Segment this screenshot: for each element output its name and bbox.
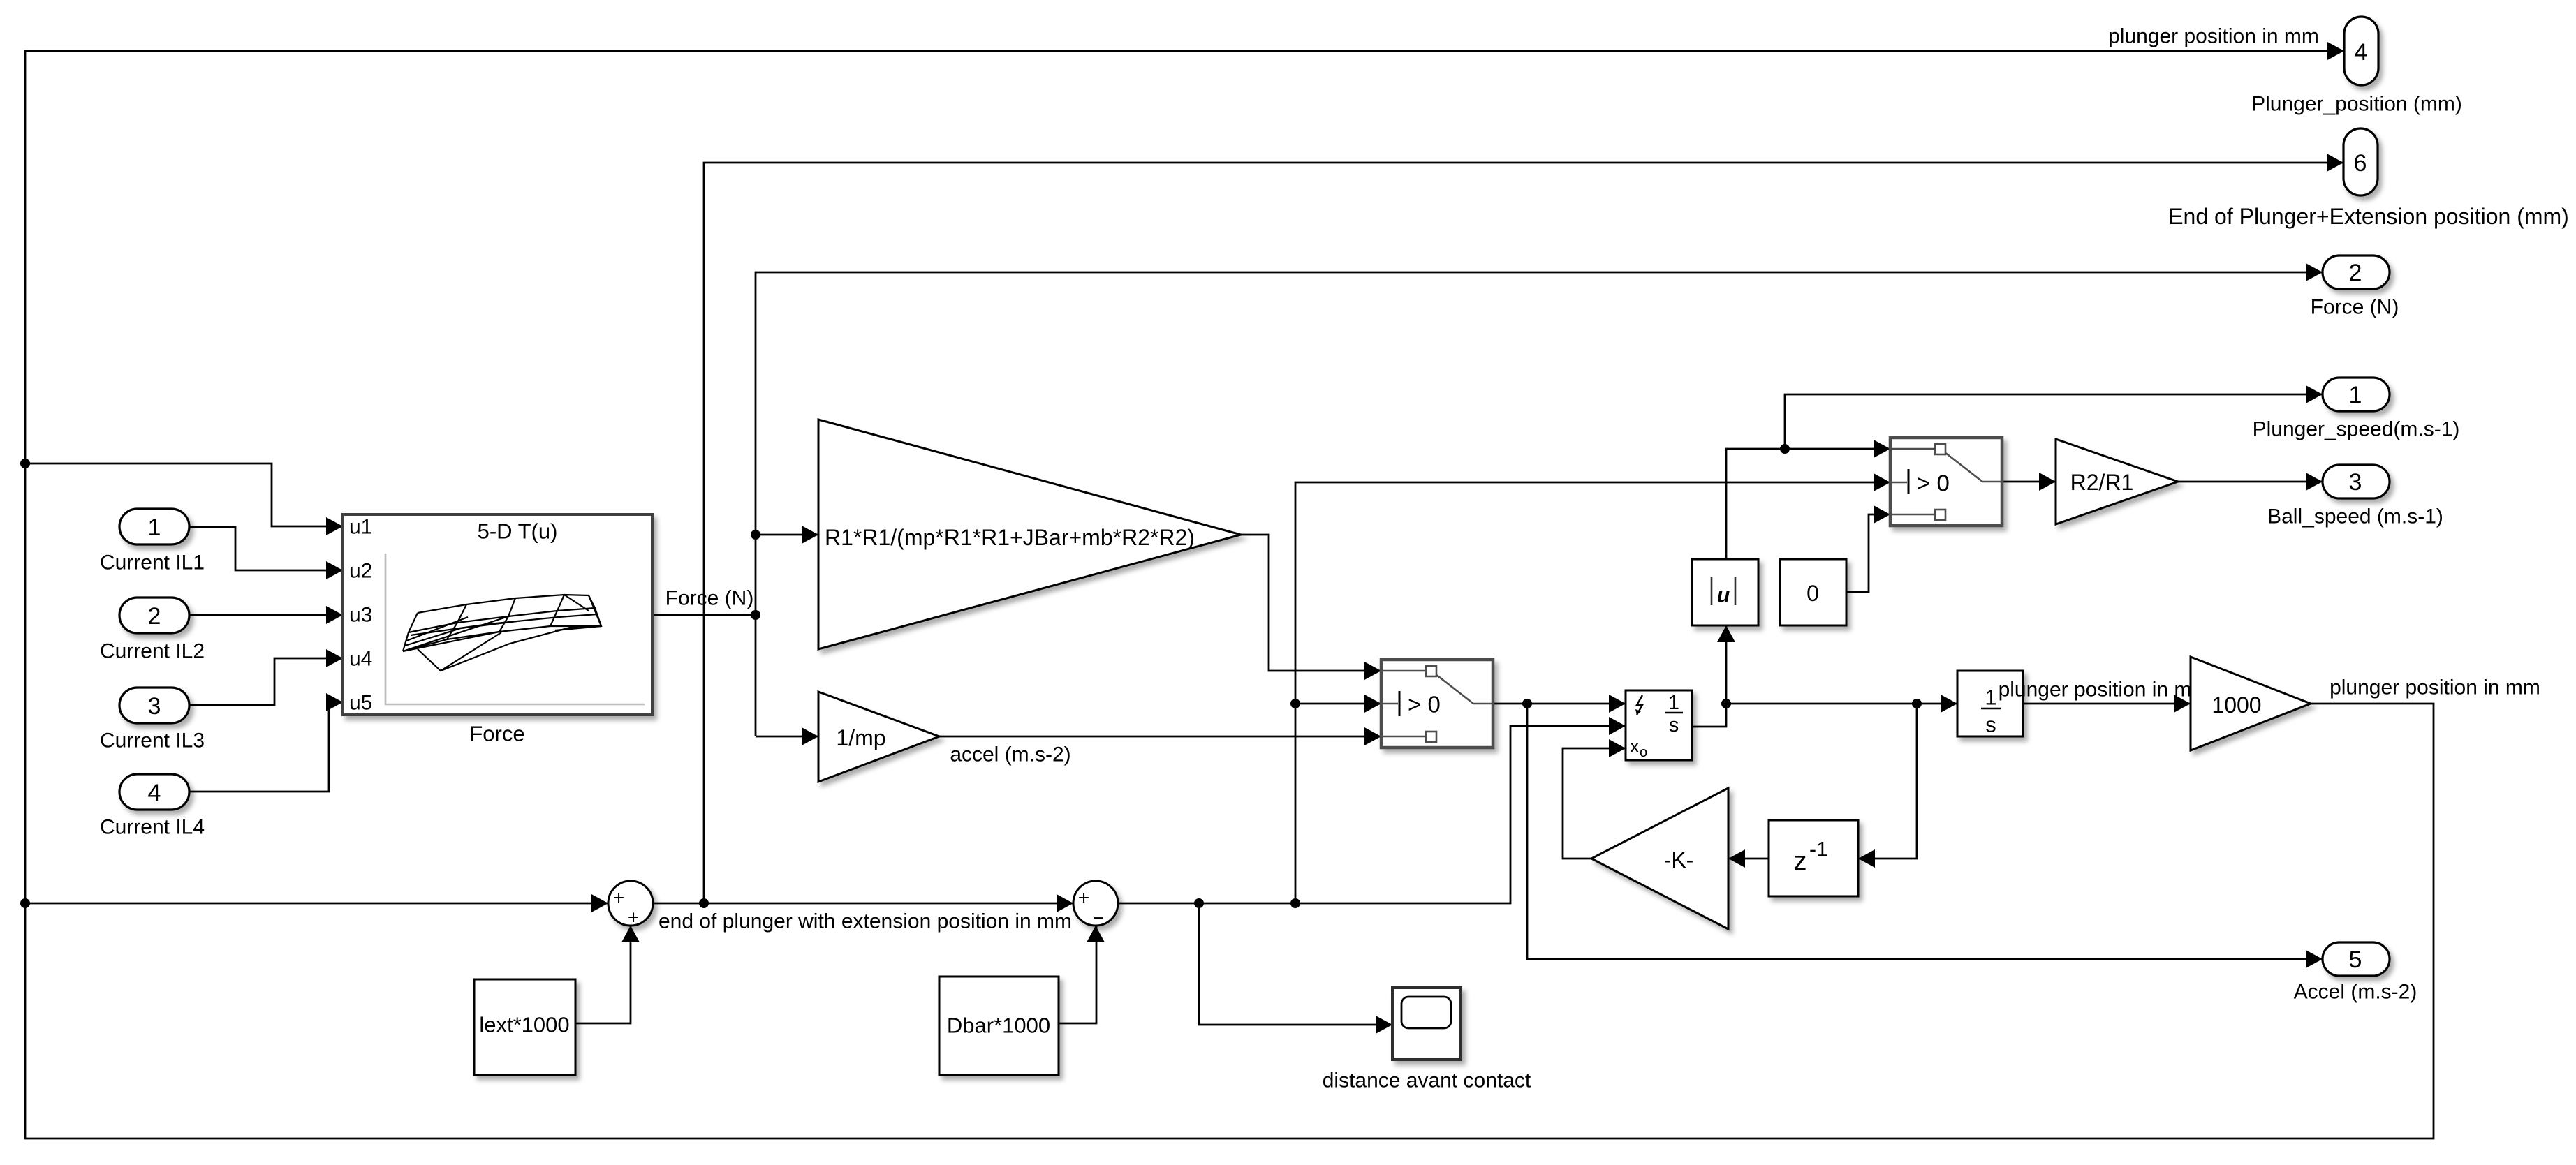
inport 4 Current IL4 bbox=[119, 774, 189, 810]
arrow into switch1 in3 bbox=[1364, 727, 1381, 745]
wire constant 0 to switch2 in3 bbox=[1846, 514, 1890, 592]
svg-text:3: 3 bbox=[2349, 469, 2362, 496]
wire lext*1000 to sum1 bottom bbox=[575, 926, 631, 1023]
label abs u bbox=[1712, 577, 1735, 607]
svg-text:plunger position in mm: plunger position in mm bbox=[2108, 25, 2319, 48]
label sum2 minus bottom bbox=[1093, 907, 1104, 929]
label u4 bbox=[349, 648, 372, 671]
svg-text:distance avant contact: distance avant contact bbox=[1323, 1069, 1531, 1092]
svg-text:u4: u4 bbox=[349, 648, 372, 671]
label inport3 number bbox=[148, 693, 161, 720]
wire -K- output to integrator x0 input bbox=[1563, 748, 1626, 859]
svg-text:+: + bbox=[1078, 887, 1089, 909]
arrow into integrator in1 bbox=[1609, 695, 1626, 713]
integrator 1/s bbox=[1957, 671, 2023, 736]
label inport1 number bbox=[148, 514, 161, 541]
label lext*1000 bbox=[479, 1013, 569, 1037]
wire node to 1/s integrator bbox=[1726, 703, 1957, 705]
svg-text:end of plunger with extension: end of plunger with extension position i… bbox=[658, 910, 1072, 933]
svg-text:0: 0 bbox=[1806, 581, 1819, 606]
svg-text:x: x bbox=[1630, 736, 1640, 757]
svg-text:o: o bbox=[1640, 745, 1647, 760]
gain 1/mp bbox=[818, 692, 939, 782]
outport 5 Accel bbox=[2323, 942, 2390, 976]
svg-text:s: s bbox=[1985, 713, 1996, 737]
arrow into sum1 bottom bbox=[621, 926, 640, 942]
outport 4 Plunger_position (vertical capsule) bbox=[2344, 17, 2378, 85]
arrow into Z-1 bbox=[1858, 849, 1875, 868]
label inport2 number bbox=[148, 603, 161, 630]
svg-text:End of Plunger+Extension posit: End of Plunger+Extension position (mm) bbox=[2168, 204, 2569, 229]
svg-text:lext*1000: lext*1000 bbox=[479, 1013, 569, 1037]
svg-text:Current IL1: Current IL1 bbox=[100, 551, 205, 574]
svg-text:5-D T(u): 5-D T(u) bbox=[478, 519, 558, 544]
wire switch1 output to reset integrator in1 bbox=[1493, 703, 1626, 705]
svg-text:2: 2 bbox=[2349, 260, 2362, 286]
arrow into Outport 1 bbox=[2306, 385, 2323, 403]
unit delay Z-1 bbox=[1769, 820, 1858, 896]
label u3 bbox=[349, 604, 372, 627]
inport 1 Current IL1 bbox=[119, 509, 189, 544]
arrow into switch1 in2 bbox=[1364, 695, 1381, 713]
label switch2 criteria bbox=[1917, 470, 1950, 496]
svg-text:1/mp: 1/mp bbox=[836, 725, 885, 750]
svg-text:6: 6 bbox=[2354, 150, 2367, 177]
junction node integrator output bbox=[1721, 699, 1731, 708]
svg-text:Current IL3: Current IL3 bbox=[100, 729, 205, 752]
svg-text:1000: 1000 bbox=[2211, 692, 2261, 718]
label sum1 plus left bbox=[613, 887, 624, 909]
svg-text:plunger position in mm: plunger position in mm bbox=[2330, 676, 2540, 699]
label outport6 number bbox=[2354, 150, 2367, 177]
lookup table 5-D T(u) Force bbox=[343, 514, 652, 715]
arrow into Outport 6 bbox=[2327, 154, 2343, 172]
arrow into Outport 5 bbox=[2306, 950, 2323, 968]
svg-text:Force (N): Force (N) bbox=[2311, 296, 2399, 319]
wire u1 feed from left feedback bbox=[25, 463, 343, 526]
wire sum1 left input feed from left feedback bbox=[25, 903, 608, 905]
svg-text:Ball_speed (m.s-1): Ball_speed (m.s-1) bbox=[2267, 505, 2443, 528]
junction node speed to unit delay bbox=[1912, 699, 1922, 708]
junction node abs to plunger speed port bbox=[1780, 444, 1790, 454]
label plunger position in mm right bbox=[2330, 676, 2540, 699]
junction node on left feedback for sum1 bbox=[20, 898, 30, 908]
1/s fraction bar bbox=[1981, 708, 2001, 710]
outport 3 Ball_speed bbox=[2323, 465, 2390, 498]
label u5 bbox=[349, 692, 372, 715]
svg-text:-K-: -K- bbox=[1664, 847, 1694, 873]
lookup table mesh surface bbox=[403, 595, 601, 671]
svg-text:Plunger_speed(m.s-1): Plunger_speed(m.s-1) bbox=[2253, 418, 2460, 441]
svg-text:Current IL4: Current IL4 bbox=[100, 816, 205, 839]
arrow into big gain bbox=[802, 526, 818, 544]
constant block Dbar*1000 bbox=[939, 977, 1059, 1075]
svg-text:> 0: > 0 bbox=[1408, 692, 1441, 718]
label sum1 plus bottom bbox=[628, 907, 639, 928]
svg-text:accel (m.s-2): accel (m.s-2) bbox=[950, 743, 1070, 766]
wire speed down to unit delay Z-1 bbox=[1858, 704, 1917, 859]
sum1 (+ +) bbox=[608, 881, 653, 926]
svg-text:Dbar*1000: Dbar*1000 bbox=[947, 1014, 1050, 1038]
arrowheads bbox=[326, 42, 2344, 1034]
svg-text:u: u bbox=[1717, 584, 1730, 607]
arrow into switch1 in1 bbox=[1364, 662, 1381, 680]
gain -K- (left pointing) bbox=[1591, 788, 1728, 929]
arrow into u1 bbox=[326, 517, 343, 535]
svg-text:4: 4 bbox=[2355, 39, 2368, 66]
wire 1/mp output (accel) to switch1 in3 bbox=[939, 736, 1381, 738]
gain R1*R1/(mp*R1*R1+JBar+mb*R2*R2) bbox=[818, 420, 1241, 649]
wire reset integrator output up to node bbox=[1691, 704, 1726, 727]
wire switch2 output to R2/R1 gain bbox=[2003, 481, 2056, 483]
label integrator s bbox=[1669, 714, 1679, 736]
svg-text:Force (N): Force (N) bbox=[665, 587, 754, 610]
scope distance avant contact bbox=[1392, 988, 1461, 1060]
svg-text:−: − bbox=[1093, 907, 1104, 929]
label 1/mp bbox=[836, 725, 885, 750]
arrow into -K- bbox=[1728, 849, 1745, 868]
junction node Force to big gain bbox=[751, 530, 760, 540]
constant block 0 bbox=[1780, 559, 1846, 625]
arrow into integrator reset bbox=[1609, 717, 1626, 735]
junction node Force output bbox=[751, 610, 760, 620]
wire to Outport 6 vertical bbox=[704, 163, 2343, 903]
wire Inport3 to u4 bbox=[189, 658, 343, 705]
svg-text:Force: Force bbox=[469, 722, 524, 746]
svg-text:u2: u2 bbox=[349, 560, 372, 583]
wire Force output of lookup table bbox=[652, 614, 756, 616]
arrow into switch2 in1 bbox=[1874, 440, 1890, 458]
switch2 body bbox=[1890, 438, 2002, 526]
svg-text:1: 1 bbox=[1985, 685, 1996, 710]
label End of Plunger+Extension position (mm) bbox=[2168, 204, 2569, 229]
wire big gain output to switch1 in1 bbox=[1241, 535, 1381, 671]
label R2/R1 bbox=[2070, 470, 2134, 495]
svg-text:R2/R1: R2/R1 bbox=[2070, 470, 2134, 495]
label constant 0 bbox=[1806, 581, 1819, 606]
wire Force to 1/mp input bbox=[756, 736, 818, 738]
wire Z-1 output to -K- gain bbox=[1728, 858, 1769, 860]
label switch1 criteria bbox=[1408, 692, 1441, 718]
label Current IL1 bbox=[100, 551, 205, 574]
junction node distance to scope bbox=[1194, 898, 1204, 908]
wire distance to scope bbox=[1199, 903, 1392, 1025]
integrator with reset (1/s xo) bbox=[1626, 690, 1692, 760]
arrow into 1/s bbox=[1941, 695, 1957, 713]
svg-text:plunger position in m: plunger position in m bbox=[1999, 678, 2192, 702]
switch1 internals bbox=[1381, 666, 1493, 742]
label accel (m.s-2) bbox=[950, 743, 1070, 766]
wire Inport1 to u2 bbox=[189, 527, 343, 570]
label gain 1000 bbox=[2211, 692, 2261, 718]
label end of plunger wire bbox=[658, 910, 1072, 933]
arrow into switch2 in2 bbox=[1874, 473, 1890, 491]
arrow into Outport 4 bbox=[2327, 42, 2344, 60]
wire sum2 output (distance avant contact) bbox=[1118, 726, 1626, 903]
sum2 (+ -) bbox=[1073, 881, 1118, 926]
wire 1/s output to 1000 gain bbox=[2023, 703, 2191, 705]
wire abs output to switch2 in1 bbox=[1726, 449, 1890, 559]
wire distance to switch1 in2 bbox=[1295, 703, 1381, 705]
arrow into integrator x0 bbox=[1609, 739, 1626, 757]
label Current IL2 bbox=[100, 640, 205, 663]
junction node distance to criteria bbox=[1290, 898, 1300, 908]
label outport1 number bbox=[2349, 382, 2362, 408]
svg-text:Plunger_position (mm): Plunger_position (mm) bbox=[2251, 93, 2462, 116]
label Force (N) port bbox=[2311, 296, 2399, 319]
svg-text:z: z bbox=[1794, 847, 1807, 876]
arrow into Outport 2 bbox=[2306, 263, 2323, 281]
label u1 bbox=[349, 516, 372, 539]
label Current IL3 bbox=[100, 729, 205, 752]
label -K- bbox=[1664, 847, 1694, 873]
label 1/s denominator bbox=[1985, 713, 1996, 737]
wire Inport4 to u5 bbox=[189, 702, 343, 792]
label Current IL4 bbox=[100, 816, 205, 839]
arrow into scope bbox=[1376, 1016, 1392, 1034]
arrow into switch2 in3 bbox=[1874, 505, 1890, 524]
integrator reset glyph bbox=[1635, 695, 1642, 715]
label u2 bbox=[349, 560, 372, 583]
label Accel (m.s-2) bbox=[2294, 981, 2417, 1004]
junction node end-of-plunger to Outport6 bbox=[699, 898, 709, 908]
label integrator xo bbox=[1630, 736, 1640, 757]
arrow into u4 bbox=[326, 649, 343, 667]
outport 6 End of Plunger+Extension (vertical capsule) bbox=[2343, 128, 2378, 195]
inport 2 Current IL2 bbox=[119, 598, 189, 633]
arrow into sum2 left bbox=[1057, 894, 1073, 912]
arrow into 1000 gain bbox=[2174, 695, 2191, 713]
gain 1000 bbox=[2191, 657, 2311, 750]
svg-text:> 0: > 0 bbox=[1917, 470, 1950, 496]
label distance avant contact bbox=[1323, 1069, 1531, 1092]
junction node switch1 output to accel port bbox=[1522, 699, 1532, 708]
arrow into sum1 left bbox=[591, 894, 608, 912]
wire R2/R1 output to Outport 3 (Ball_speed) bbox=[2178, 481, 2323, 483]
wire distance up to switch criteria inputs bbox=[1295, 482, 1890, 903]
svg-text:+: + bbox=[628, 907, 639, 928]
wire abs speed to Outport 1 (Plunger_speed) bbox=[1785, 394, 2323, 449]
arrow into abs bbox=[1717, 625, 1735, 642]
arrow into sum2 bottom bbox=[1087, 926, 1105, 942]
label sum2 plus left bbox=[1078, 887, 1089, 909]
outport 2 Force bbox=[2323, 255, 2390, 289]
svg-text:4: 4 bbox=[148, 780, 161, 806]
label Plunger_position (mm) bbox=[2251, 93, 2462, 116]
gain R2/R1 bbox=[2056, 439, 2178, 524]
junction node criteria switch1 bbox=[1290, 699, 1300, 708]
svg-text:R1*R1/(mp*R1*R1+JBar+mb*R2*R2): R1*R1/(mp*R1*R1+JBar+mb*R2*R2) bbox=[825, 525, 1195, 550]
svg-text:3: 3 bbox=[148, 693, 161, 720]
arrow into R2/R1 bbox=[2039, 473, 2056, 491]
svg-text:1: 1 bbox=[2349, 382, 2362, 408]
constant block lext*1000 bbox=[474, 979, 575, 1075]
wire node to abs input bbox=[1725, 625, 1728, 704]
wire accel down to Outport 5 bbox=[1527, 704, 2323, 959]
inport 3 Current IL3 bbox=[119, 688, 189, 723]
svg-text:s: s bbox=[1669, 714, 1679, 736]
arrow into u3 bbox=[326, 606, 343, 624]
label Force under lookup bbox=[469, 722, 524, 746]
arrow into Outport 3 bbox=[2306, 473, 2323, 491]
label big gain formula bbox=[825, 525, 1195, 550]
wire Dbar*1000 to sum2 bottom bbox=[1059, 926, 1096, 1023]
abs block |u| bbox=[1692, 559, 1758, 625]
label 1/s numerator bbox=[1985, 685, 1996, 710]
outport 1 Plunger_speed bbox=[2323, 378, 2390, 411]
label plunger position in m bbox=[1999, 678, 2192, 702]
label integrator 1 bbox=[1668, 692, 1679, 714]
integrator fraction bar bbox=[1665, 712, 1683, 714]
wire Inport2 to u3 bbox=[189, 614, 343, 616]
svg-text:2: 2 bbox=[148, 603, 161, 630]
label Plunger_speed(m.s-1) bbox=[2253, 418, 2460, 441]
label Force (N) wire bbox=[665, 587, 754, 610]
label outport5 number bbox=[2349, 947, 2362, 973]
wire Force to big gain input bbox=[756, 534, 818, 536]
svg-text:u3: u3 bbox=[349, 604, 372, 627]
label Z-1 bbox=[1794, 838, 1828, 877]
scope screen bbox=[1401, 997, 1451, 1028]
svg-text:5: 5 bbox=[2349, 947, 2362, 973]
arrow into u5 bbox=[326, 693, 343, 711]
arrow into u2 bbox=[326, 561, 343, 579]
svg-text:1: 1 bbox=[148, 514, 161, 541]
svg-text:Current IL2: Current IL2 bbox=[100, 640, 205, 663]
svg-text:1: 1 bbox=[1668, 692, 1679, 714]
label outport4 number bbox=[2355, 39, 2368, 66]
svg-text:+: + bbox=[613, 887, 624, 909]
svg-text:u5: u5 bbox=[349, 692, 372, 715]
svg-text:Accel (m.s-2): Accel (m.s-2) bbox=[2294, 981, 2417, 1004]
label outport3 number bbox=[2349, 469, 2362, 496]
label inport4 number bbox=[148, 780, 161, 806]
label 5-D T(u) title bbox=[478, 519, 558, 544]
label Dbar*1000 bbox=[947, 1014, 1050, 1038]
wire Force distribution vertical and to Outport 2 bbox=[756, 272, 2323, 736]
svg-text:u1: u1 bbox=[349, 516, 372, 539]
wire sum1 output (end of plunger position) to sum2 bbox=[653, 903, 1073, 905]
switch2 internals bbox=[1890, 444, 2002, 520]
switch1 body bbox=[1381, 660, 1493, 748]
svg-text:-1: -1 bbox=[1809, 838, 1828, 861]
label Ball_speed (m.s-1) bbox=[2267, 505, 2443, 528]
arrow into 1/mp bbox=[802, 727, 818, 745]
junction node on left feedback for u1 bbox=[20, 459, 30, 468]
label outport2 number bbox=[2349, 260, 2362, 286]
lookup table axes bbox=[385, 554, 645, 704]
label plunger position in mm top bbox=[2108, 25, 2319, 48]
